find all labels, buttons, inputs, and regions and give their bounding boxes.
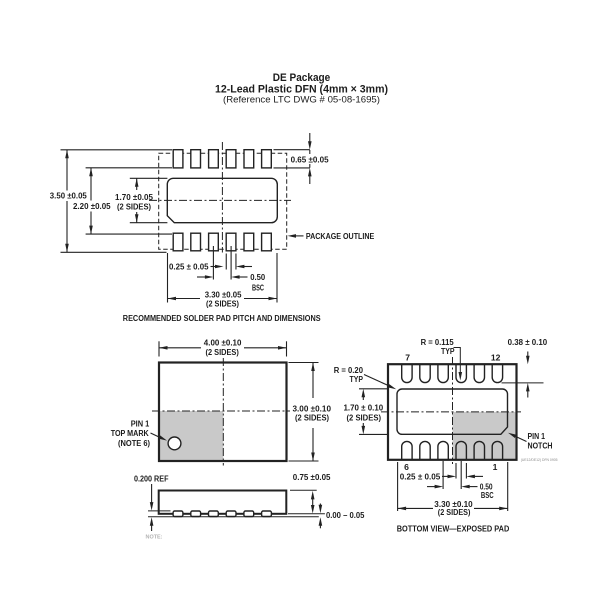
dimension 0.75 extension line	[290, 489, 317, 491]
bottom view pin slot bottom 5	[474, 441, 484, 459]
svg-text:TYP: TYP	[350, 374, 364, 384]
pitch extension line slot3 center	[442, 461, 444, 489]
dimension text 1.70 drawing 4	[344, 402, 384, 422]
solder pad top row 5	[244, 150, 254, 168]
top view gray quadrant	[159, 411, 223, 461]
svg-text:RECOMMENDED SOLDER PAD PITCH A: RECOMMENDED SOLDER PAD PITCH AND DIMENSI…	[123, 313, 321, 323]
svg-text:(2 SIDES): (2 SIDES)	[438, 507, 471, 517]
svg-text:(Reference LTC DWG # 05-08-169: (Reference LTC DWG # 05-08-1695)	[223, 95, 380, 105]
svg-text:12: 12	[491, 352, 501, 362]
dimension 3.30 line with arrows drawing 4	[398, 507, 508, 511]
dimension text 0.200 REF	[134, 473, 169, 483]
pitch extension line pad4 left	[225, 254, 227, 270]
svg-text:7: 7	[405, 352, 410, 362]
dimension text 0.38	[508, 337, 548, 347]
bottom view gray quadrant	[453, 412, 516, 459]
dimension 3.30 line with arrows drawing 1	[168, 297, 278, 301]
svg-text:0.65 ±0.05: 0.65 ±0.05	[291, 154, 329, 164]
dimension text 0.75	[293, 472, 331, 482]
svg-text:1.70 ± 0.10: 1.70 ± 0.10	[344, 402, 384, 412]
label R = 0.115 TYP	[421, 337, 455, 356]
side view body outline	[159, 491, 287, 514]
svg-text:(2 SIDES): (2 SIDES)	[347, 412, 382, 422]
svg-text:TOP MARK: TOP MARK	[111, 428, 150, 438]
dimension text 0.25 drawing 4	[400, 471, 441, 481]
bottom view pin slot top 2	[420, 364, 430, 382]
bottom view pin slot bottom 2	[420, 441, 430, 459]
dimension 0.75 line with arrows	[311, 491, 315, 514]
side view lead 4	[226, 511, 236, 517]
tiny revision text	[521, 458, 558, 462]
dimension 0.200 REF arrows	[150, 484, 154, 531]
dimension 0.50 arrows drawing 4	[427, 485, 478, 489]
dimension 2.20 line with arrows	[89, 168, 93, 234]
top view package body outline	[159, 363, 287, 462]
dimension text 3.50	[50, 191, 87, 201]
top view center line horizontal	[152, 410, 290, 412]
pin 1 notch label	[528, 431, 553, 450]
side view lead 3	[209, 511, 219, 517]
svg-text:NOTCH: NOTCH	[528, 441, 553, 451]
pin label 7	[405, 352, 410, 362]
dimension 0.00-0.05 arrows	[319, 504, 323, 529]
pitch extension line slot4 right	[465, 463, 467, 479]
pitch extension line pad4 right	[235, 254, 237, 270]
dimension text 0.50 BSC drawing 1	[250, 272, 265, 292]
bottom view pin slot top 3	[438, 364, 448, 382]
leader arrow R = 0.20	[364, 375, 396, 390]
svg-text:NOTE:: NOTE:	[146, 535, 163, 541]
dimension text 3.30 drawing 4	[434, 499, 473, 517]
svg-text:BSC: BSC	[252, 282, 264, 292]
top view center line vertical	[222, 358, 224, 466]
body bottom extension line right	[288, 513, 325, 515]
svg-text:0.200 REF: 0.200 REF	[134, 473, 169, 483]
svg-text:0.38 ± 0.10: 0.38 ± 0.10	[508, 337, 548, 347]
dimension 0.65 extension lines	[274, 150, 310, 168]
center line vertical drawing 1	[221, 142, 223, 253]
bottom view pin slot top 4	[456, 364, 466, 382]
pin 1 top mark arrow	[151, 433, 168, 441]
svg-text:(NOTE 6): (NOTE 6)	[118, 438, 150, 448]
seating plane line	[148, 516, 319, 518]
side view lead 1	[173, 511, 183, 517]
svg-text:DE Package: DE Package	[273, 72, 331, 84]
label R = 0.20 TYP	[334, 365, 364, 384]
bottom view pin slot bottom 6	[492, 441, 502, 459]
pitch extension line pad4 center	[230, 246, 232, 280]
svg-text:3.50 ±0.05: 3.50 ±0.05	[50, 191, 87, 201]
solder pad top row 4	[226, 150, 236, 168]
pin 1 notch arrow	[508, 433, 527, 442]
leader arrow R = 0.115	[454, 348, 463, 381]
package outline (dashed) drawing 1	[159, 153, 287, 249]
side view lead 6	[262, 511, 272, 517]
title line 1: DE Package	[273, 72, 331, 84]
side view lead 5	[244, 511, 254, 517]
bottom view pin slot top 1	[402, 364, 412, 382]
dimension text 0.25 drawing 1	[169, 262, 209, 272]
bottom view package body outline	[388, 364, 517, 460]
bottom view pin slot bottom 3	[438, 441, 448, 459]
svg-text:BSC: BSC	[481, 490, 494, 500]
bottom view pin slot bottom 1	[402, 441, 412, 459]
dimension 2.20 extension lines	[86, 168, 172, 234]
dimension 0.25 arrows drawing 1	[211, 265, 253, 269]
pitch extension line slot4 center	[460, 461, 462, 489]
dimension 3.50 line with arrows	[65, 150, 69, 253]
svg-text:BOTTOM VIEW—EXPOSED PAD: BOTTOM VIEW—EXPOSED PAD	[397, 523, 510, 533]
dimension text 0.65	[291, 154, 329, 164]
solder pad bottom row 3	[209, 233, 219, 251]
bottom view center line horizontal	[381, 411, 521, 413]
caption: recommended solder pad pitch and dimensions	[123, 313, 321, 323]
solder pad bottom row 1	[173, 233, 183, 251]
solder pad bottom row 5	[244, 233, 254, 251]
dimension text 0.00-0.05	[326, 510, 365, 520]
svg-text:0.75 ±0.05: 0.75 ±0.05	[293, 472, 331, 482]
solder pad bottom row 2	[191, 233, 201, 251]
dimension 0.38 arrows	[526, 352, 530, 398]
lead plane extension line left	[148, 510, 171, 512]
dimension 0.25 arrows drawing 4	[442, 475, 483, 479]
bottom view center line vertical	[452, 357, 454, 464]
package outline arrow	[288, 234, 304, 238]
bottom view pin slot bottom 4	[456, 441, 466, 459]
title line 3: Reference LTC DWG number	[223, 95, 380, 105]
center line horizontal drawing 1	[149, 199, 291, 201]
svg-text:(2 SIDES): (2 SIDES)	[295, 413, 329, 423]
dimension text 3.30 drawing 1	[205, 289, 242, 308]
dimension 3.50 extension lines	[61, 150, 173, 253]
solder pad top row 3	[209, 150, 219, 168]
side view lead 2	[191, 511, 201, 517]
caption: bottom view exposed pad	[397, 523, 510, 533]
solder pad top row 6	[262, 150, 272, 168]
dimension 3.30 extension lines drawing 4	[398, 462, 508, 511]
dimension 4.00 extension lines	[159, 341, 287, 356]
svg-text:(2 SIDES): (2 SIDES)	[117, 201, 151, 211]
dimension 1.70 arrows drawing 4	[362, 389, 366, 435]
dimension 4.00 line with arrows	[159, 346, 287, 350]
dimension text 2.20	[73, 201, 111, 211]
svg-text:0.25 ± 0.05: 0.25 ± 0.05	[169, 262, 209, 272]
solder pad top row 2	[191, 150, 201, 168]
dimension text 1.70	[115, 192, 153, 211]
svg-text:(2 SIDES): (2 SIDES)	[206, 299, 239, 309]
dimension 0.50 arrows drawing 1	[197, 275, 248, 279]
note text fragment	[146, 535, 163, 541]
solder pad top row 1	[173, 150, 183, 168]
svg-text:(2 SIDES): (2 SIDES)	[206, 347, 239, 357]
pin 1 top mark label	[111, 419, 150, 448]
svg-text:1: 1	[493, 462, 498, 472]
pin label 6	[404, 462, 409, 472]
dimension 0.65 arrows	[308, 133, 312, 184]
svg-text:PACKAGE OUTLINE: PACKAGE OUTLINE	[306, 231, 375, 241]
pitch extension line pad3 center	[212, 246, 214, 280]
svg-text:(UE12/DE12) DFN 0905: (UE12/DE12) DFN 0905	[521, 458, 558, 462]
dimension text 4.00	[204, 337, 242, 357]
svg-text:0.25 ± 0.05: 0.25 ± 0.05	[400, 471, 441, 481]
svg-text:0.00 – 0.05: 0.00 – 0.05	[326, 510, 365, 520]
svg-text:0.50: 0.50	[250, 272, 265, 282]
solder pad bottom row 4	[226, 233, 236, 251]
dimension text 0.50 BSC drawing 4	[480, 482, 494, 501]
dimension 3.00 extension lines	[289, 363, 319, 462]
pin 1 top mark circle	[168, 437, 181, 450]
svg-text:2.20 ±0.05: 2.20 ±0.05	[73, 201, 111, 211]
bottom view pin slot top 6	[492, 364, 502, 382]
dimension 1.70 extension lines	[130, 178, 168, 222]
dimension 3.30 extension lines drawing 1	[168, 253, 278, 303]
pin label 1	[493, 462, 498, 472]
dimension 1.70 arrows	[135, 178, 139, 222]
svg-text:TYP: TYP	[441, 346, 455, 356]
bottom view exposed pad outline (chamfered bottom-right pin 1 notch)	[397, 389, 508, 434]
dimension 0.38 extension line	[502, 382, 544, 384]
solder paste exposed pad (rounded rect, chamfered bottom-left)	[167, 178, 277, 222]
package outline label	[306, 231, 375, 241]
dimension 1.70 extension lines drawing 4	[359, 389, 389, 435]
svg-text:4.00 ±0.10: 4.00 ±0.10	[204, 337, 242, 347]
title line 2: 12-Lead Plastic DFN (4mm x 3mm)	[215, 84, 388, 96]
svg-text:6: 6	[404, 462, 409, 472]
pitch extension line slot4 left	[455, 463, 457, 479]
pin label 12	[491, 352, 501, 362]
bottom view pin slot top 5	[474, 364, 484, 382]
solder pad bottom row 6	[262, 233, 272, 251]
dimension 3.00 line with arrows	[311, 363, 315, 462]
dimension text 3.00	[293, 404, 332, 423]
